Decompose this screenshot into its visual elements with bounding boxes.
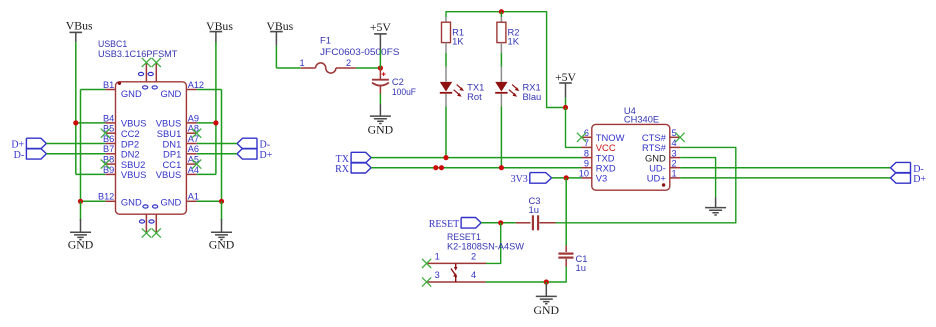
wire D- to pin B7 — [46, 153, 105, 155]
node RX flag — [351, 162, 371, 173]
wire GND drop (C1/switch) — [545, 282, 547, 287]
resistor R1 — [442, 22, 451, 42]
svg-text:A4: A4 — [188, 165, 199, 175]
svg-text:10: 10 — [579, 169, 589, 179]
wire 3V3 to V3 pin 10 — [552, 177, 582, 179]
svg-text:A12: A12 — [188, 80, 204, 90]
svg-text:GND: GND — [160, 88, 181, 99]
svg-text:1: 1 — [299, 58, 304, 68]
power flag VBus (middle) — [270, 31, 283, 33]
wire VBus-right to pin A9 — [197, 122, 216, 124]
svg-text:VBus: VBus — [206, 19, 233, 33]
svg-text:2: 2 — [346, 58, 351, 68]
svg-text:B7: B7 — [103, 144, 114, 154]
node RESET flag — [461, 218, 481, 229]
svg-text:B12: B12 — [98, 192, 114, 202]
svg-text:4: 4 — [672, 138, 677, 148]
junction GND-left at B12 — [78, 199, 83, 204]
wire V3 to C1 — [565, 178, 567, 246]
node D- flag (far left) — [26, 149, 46, 160]
svg-text:B1: B1 — [103, 80, 114, 90]
node D- flag (far right) — [891, 162, 911, 173]
LED RX1 — [500, 67, 502, 82]
junction RX extra B — [439, 165, 444, 170]
no-connect switch pin 3 — [422, 277, 431, 286]
junction TX/LED — [443, 155, 448, 160]
svg-text:GND: GND — [368, 123, 394, 137]
svg-text:1K: 1K — [508, 36, 520, 47]
wire VBus-left to pin B4 — [76, 122, 106, 124]
junction +5V/C2 — [378, 65, 383, 70]
svg-text:2: 2 — [471, 252, 476, 262]
svg-text:VBUS: VBUS — [156, 169, 182, 180]
no-connect shield bottom — [142, 228, 151, 237]
wire +5V to VCC pin 7 — [566, 108, 582, 148]
svg-text:1u: 1u — [529, 204, 539, 215]
svg-text:GND: GND — [68, 238, 94, 252]
svg-text:USB3.1C16PFSMT: USB3.1C16PFSMT — [98, 48, 178, 59]
capacitor C2 — [379, 68, 381, 80]
svg-text:GND: GND — [209, 238, 235, 252]
svg-text:D+: D+ — [260, 150, 273, 161]
svg-text:GND: GND — [160, 196, 181, 207]
svg-text:A7: A7 — [188, 134, 199, 144]
svg-text:4: 4 — [471, 270, 476, 280]
wire GND-right vertical — [221, 90, 223, 202]
svg-text:A9: A9 — [188, 113, 199, 123]
svg-text:GND: GND — [534, 303, 560, 317]
junction VBus-right at A9 — [213, 120, 218, 125]
no-connect U4 pin 5 — [676, 133, 685, 142]
junction RESET/switch — [498, 220, 503, 225]
node D- flag (mid) — [237, 138, 257, 149]
svg-text:D+: D+ — [913, 174, 926, 185]
no-connect switch pin 1 — [422, 259, 431, 268]
wire GND-right drop — [221, 201, 223, 220]
wire VBus to fuse — [275, 46, 277, 68]
wire GND-right to pin A1 — [197, 200, 222, 202]
no-connect B8 — [101, 160, 110, 169]
node D+ flag (far left) — [26, 138, 46, 149]
svg-text:6: 6 — [584, 128, 589, 138]
svg-text:GND: GND — [121, 88, 142, 99]
wire R1 to LED TX1 — [445, 43, 447, 53]
svg-text:B4: B4 — [103, 113, 114, 123]
USBC1 origin mark — [118, 82, 121, 85]
junction VBus-left at B4 — [73, 120, 78, 125]
svg-text:K2-1808SN-A4SW: K2-1808SN-A4SW — [447, 241, 524, 252]
svg-text:3: 3 — [435, 270, 440, 280]
ground GND (bottom) — [536, 296, 557, 303]
svg-text:1: 1 — [672, 169, 677, 179]
no-connect U4 pin 6 — [577, 133, 586, 142]
svg-text:2: 2 — [672, 158, 677, 168]
power flag +5V (middle) — [374, 33, 387, 35]
wire VBus-left vertical — [75, 42, 77, 174]
svg-text:B9: B9 — [103, 165, 114, 175]
no-connect shield top — [142, 58, 151, 67]
svg-text:VBUS: VBUS — [121, 169, 147, 180]
node D+ flag (far right) — [891, 173, 911, 184]
svg-text:Rot: Rot — [467, 91, 482, 102]
node D+ flag (mid) — [237, 149, 257, 160]
ground GND (C2) — [370, 116, 391, 123]
wire GND-left drop — [80, 201, 82, 220]
capacitor C3 — [516, 222, 531, 224]
ground (U4) — [705, 208, 726, 215]
svg-text:VBus: VBus — [66, 19, 93, 33]
wire RESET to junction — [481, 222, 516, 224]
svg-text:RX: RX — [335, 164, 350, 175]
svg-text:V3: V3 — [596, 173, 607, 184]
wire C3 to RTS# — [556, 147, 736, 222]
wire +5V rail — [446, 12, 565, 108]
ground GND (right) — [211, 232, 232, 239]
svg-text:RESET: RESET — [429, 219, 460, 230]
power flag VBus (right) — [210, 31, 223, 33]
junction RX/LED — [499, 165, 504, 170]
svg-text:A6: A6 — [188, 144, 199, 154]
svg-text:A1: A1 — [188, 192, 199, 202]
wire VBus-left to pin B9 — [76, 173, 106, 175]
svg-text:Blau: Blau — [523, 91, 542, 102]
svg-text:1u: 1u — [576, 262, 586, 273]
wire D+ to pin B6 — [46, 143, 105, 145]
junction RX extra A — [433, 165, 438, 170]
no-connect B5 — [101, 129, 110, 138]
wire +5V right down — [565, 98, 567, 108]
junction GND rail — [544, 279, 549, 284]
connector USBC1 body and pins — [116, 82, 187, 214]
wire fuse to +5V node — [356, 67, 381, 69]
junction rail/R2 — [499, 9, 504, 14]
wire GND-left to pin B12 — [81, 200, 106, 202]
wire RESET to switch pin 2 — [486, 223, 501, 264]
wire +5V down — [379, 50, 381, 69]
R2 top pin — [500, 17, 502, 22]
wire pin A7 to D- — [197, 143, 237, 145]
ground GND (left) — [70, 232, 91, 239]
wire GND-right from pin A12 — [197, 89, 222, 91]
wire C1 to GND rail — [486, 267, 567, 283]
svg-text:1: 1 — [435, 252, 440, 262]
junction V3/C1 — [564, 175, 569, 180]
IC U4 body and pins — [592, 124, 670, 190]
svg-text:3V3: 3V3 — [511, 174, 528, 185]
wire C2 to GND — [379, 94, 381, 105]
wire U4 GND pin 3 — [680, 158, 716, 198]
wire GND-left vertical — [80, 90, 82, 202]
svg-text:UD+: UD+ — [647, 173, 667, 184]
junction +5V right — [563, 105, 568, 110]
svg-text:100uF: 100uF — [392, 86, 416, 97]
svg-text:D-: D- — [14, 150, 25, 161]
node 3V3 flag — [530, 173, 552, 184]
wire LED TX1 to TX net — [445, 107, 447, 158]
no-connect A5 — [192, 160, 201, 169]
power flag VBus (left) — [70, 31, 83, 33]
switch RESET1 — [427, 262, 486, 264]
svg-text:3: 3 — [672, 148, 677, 158]
svg-text:JFC0603-0500FS: JFC0603-0500FS — [320, 46, 400, 57]
svg-text:B6: B6 — [103, 134, 114, 144]
LED TX1 — [445, 67, 447, 82]
wire R2 to LED RX1 — [500, 43, 502, 53]
junction GND-right at A1 — [219, 199, 224, 204]
svg-text:1K: 1K — [452, 36, 464, 47]
capacitor C1 — [558, 253, 573, 255]
node TX flag — [351, 152, 371, 163]
svg-text:+5V: +5V — [555, 70, 577, 84]
wire TX net — [371, 157, 581, 159]
wire UD- net — [680, 167, 890, 169]
svg-text:8: 8 — [584, 148, 589, 158]
wire VBus-right vertical — [215, 42, 217, 174]
wire pin A6 to D+ — [197, 153, 237, 155]
svg-text:VBus: VBus — [266, 19, 293, 33]
power flag +5V (right) — [559, 82, 572, 84]
R1 top pin — [445, 17, 447, 22]
wire VBus-right to pin A4 — [197, 173, 216, 175]
no-connect A8 — [192, 129, 201, 138]
wire RX net — [371, 167, 581, 169]
resistor R2 — [497, 22, 506, 42]
U4 origin mark — [662, 183, 665, 186]
wire UD+ net — [680, 177, 890, 179]
svg-text:F1: F1 — [320, 34, 331, 45]
svg-text:9: 9 — [584, 158, 589, 168]
wire rail to R2 — [500, 12, 502, 18]
wire GND-left from pin B1 — [81, 89, 106, 91]
svg-text:CH340E: CH340E — [624, 114, 659, 125]
fuse F1 — [301, 67, 316, 69]
svg-text:GND: GND — [121, 196, 142, 207]
USBC1 shield pads — [138, 72, 143, 75]
svg-text:+5V: +5V — [370, 20, 392, 34]
wire LED RX1 to RX net — [500, 107, 502, 168]
